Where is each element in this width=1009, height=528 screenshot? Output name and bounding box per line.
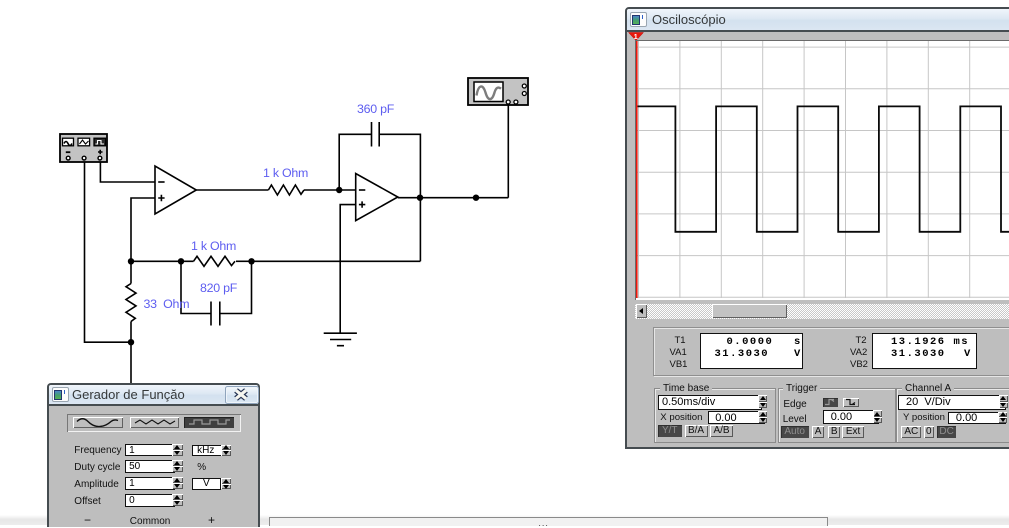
label R3 value 33 Ohm	[144, 297, 190, 311]
svg-text:33 Ohm: 33 Ohm	[144, 297, 190, 311]
resistor R3 33 Ohm	[126, 284, 136, 322]
red trigger position line	[635, 41, 637, 298]
wire R3 to bottom node F	[130, 322, 132, 343]
resistor R1 1 kOhm	[268, 185, 304, 195]
Frequency row	[74, 445, 121, 456]
wire bottom node F down to function generator window	[130, 342, 132, 384]
wire R1 to U2 inverting input	[304, 189, 356, 191]
grid	[636, 41, 1009, 298]
Time base group	[654, 388, 776, 443]
svg-text:1 k Ohm: 1 k Ohm	[191, 239, 236, 253]
Duty cycle row	[74, 462, 120, 473]
Amplitude row	[74, 479, 118, 490]
node G junction dot	[473, 195, 479, 201]
wire C2 to node E	[220, 261, 252, 313]
wire node A to resistor R3	[130, 261, 132, 283]
scope display area	[635, 40, 1009, 300]
function generator instrument icon	[60, 134, 107, 162]
svg-text:1 k Ohm: 1 k Ohm	[263, 166, 308, 180]
resistor R2 1 kOhm	[194, 256, 236, 266]
oscilloscope instrument icon	[468, 78, 528, 105]
node F junction dot	[128, 339, 134, 345]
wire U1 output to resistor R1	[196, 189, 268, 191]
capacitor C2 820 pF plates	[211, 302, 220, 326]
wire bottom rail from node E to output node C	[252, 198, 421, 262]
common row	[84, 513, 91, 527]
node D junction dot	[178, 258, 184, 264]
wire U1 non-inverting input to node A	[131, 198, 155, 260]
label R2 value 1 k Ohm	[191, 239, 236, 253]
node C junction dot	[417, 195, 423, 201]
node B junction dot	[336, 187, 342, 193]
wire U2 non-inverting input to ground	[340, 205, 356, 334]
Offset row	[74, 496, 101, 507]
readouts panel	[653, 327, 1009, 376]
wire node B up to capacitor C1	[339, 134, 371, 190]
wire node D down to capacitor C2	[181, 261, 211, 313]
wire FG plus terminal to op-amp U1 inverting input	[100, 160, 155, 182]
wire U2 output to scope drop	[398, 197, 509, 199]
svg-text:360 pF: 360 pF	[357, 102, 395, 116]
trigger marker 1	[628, 32, 646, 41]
label C1 value 360 pF	[357, 102, 395, 116]
Channel A group	[896, 388, 1009, 443]
wire up to oscilloscope icon terminal	[507, 104, 509, 198]
wire R2 to node E	[236, 260, 252, 262]
waveform selector group	[67, 414, 242, 432]
label C2 value 820 pF	[200, 281, 238, 295]
horizontal scrollbar	[635, 304, 1009, 319]
channel A square waveform	[636, 106, 1009, 231]
content origin: x=627, y=31.4 (win inner)	[627, 32, 1009, 447]
node A junction dot	[128, 258, 134, 264]
label R1 value 1 k Ohm	[263, 166, 308, 180]
node E junction dot	[248, 258, 254, 264]
wire C1 to output node C	[379, 134, 420, 197]
ground symbol	[324, 333, 357, 346]
svg-text:820 pF: 820 pF	[200, 281, 238, 295]
wire FG middle terminal to bottom node	[85, 160, 131, 342]
op-amp U1	[155, 166, 196, 214]
Trigger group	[778, 388, 896, 443]
wire node A to resistor R2	[131, 260, 194, 262]
op-amp U2	[356, 174, 398, 221]
capacitor C1 360 pF plates	[372, 122, 380, 147]
